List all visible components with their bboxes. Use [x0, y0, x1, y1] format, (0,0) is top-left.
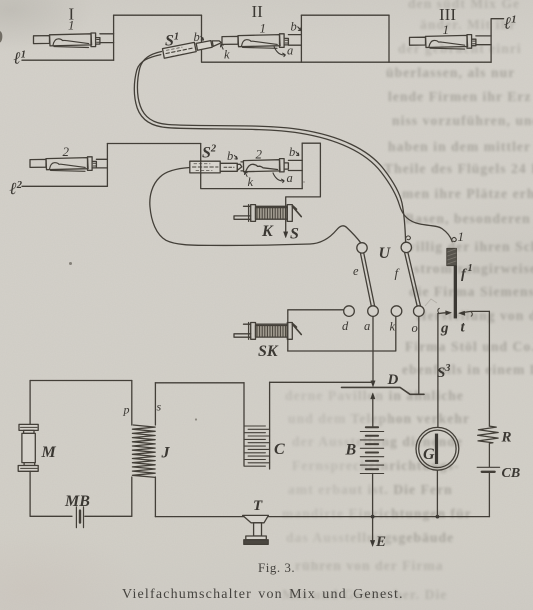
node: rectangle from jack b contact to relay K: [286, 143, 321, 197]
battery B cells: [360, 427, 383, 473]
contact circle d: [344, 306, 355, 317]
switch U arm e: [360, 252, 374, 306]
contact circle f upper: [401, 242, 411, 252]
svg-text:d: d: [342, 319, 349, 333]
wire: middle loop top edge: [155, 382, 244, 384]
svg-text:C: C: [274, 441, 285, 458]
svg-text:MB: MB: [64, 493, 90, 510]
wire: capacitor C top to contact-a wire: [270, 381, 373, 383]
jack 2 row2-left frame springs: [96, 159, 107, 168]
contact 1 hatched block (f1): [447, 248, 457, 265]
svg-text:b: b: [291, 20, 297, 34]
induction coil J (zigzag winding): [132, 425, 155, 477]
svg-text:D: D: [387, 372, 399, 388]
wire: capacitor C left bus: [243, 383, 245, 466]
winding hatch of relay K: [257, 208, 286, 220]
svg-text:b: b: [289, 145, 295, 159]
svg-text:a: a: [364, 319, 370, 333]
wire: top wire between jack II and jack III: [301, 14, 389, 16]
wire: long bottom wire of lower circuit: [155, 516, 489, 518]
svg-text:p: p: [123, 403, 130, 417]
wire: jack 2 riser: [106, 144, 108, 187]
svg-text:R: R: [501, 430, 512, 446]
contact circle a: [368, 306, 379, 317]
paper speck dot: [69, 262, 72, 265]
svg-text:M: M: [41, 444, 57, 461]
node: row2 enclosure drop through plug and bottom edge: [201, 144, 303, 189]
battery MB cells: [76, 507, 83, 528]
jack 2 row2 left (spring jack 2, section I): [30, 157, 96, 172]
svg-text:e: e: [353, 264, 359, 278]
svg-text:s: s: [157, 400, 162, 414]
wire: CB down to bottom wire corner: [488, 472, 490, 517]
junction dot at B: [371, 515, 375, 519]
jack III frame springs: [476, 36, 491, 45]
wire: contact a down to bar D with arrowhead: [372, 316, 374, 383]
wire: left loop left side to microphone M: [29, 381, 31, 425]
arrow t (pointing left at lever): [462, 311, 490, 313]
svg-text:k: k: [248, 175, 254, 189]
jack III (spring jack 1, section III): [410, 35, 476, 50]
svg-text:B: B: [345, 442, 357, 459]
svg-text:1: 1: [260, 21, 267, 36]
wire: capacitor C right bus: [269, 382, 271, 469]
bar D (listening key bar): [342, 387, 425, 394]
wire: primary p riser: [131, 381, 133, 426]
jack 2 row2 middle (spring jack 2, section II): [241, 159, 288, 172]
winding hatch of relay SK: [257, 326, 286, 338]
cord of plug S1 (double flexible cord): [137, 52, 405, 243]
relay K (coil with armature): [234, 205, 301, 222]
wire: line l1 from label to jack I: [22, 59, 114, 61]
wire: row2 top wire from jack 2: [107, 143, 200, 145]
wire: contact o down to bar D: [418, 316, 420, 394]
svg-text:G: G: [423, 446, 435, 463]
wire: relay K to S arrow: [285, 198, 287, 234]
paper scratch: [425, 299, 437, 306]
svg-text:2: 2: [63, 144, 70, 159]
wire: left loop top edge: [30, 380, 132, 382]
contact circle k: [391, 306, 402, 317]
bleed-through text column: [408, 0, 520, 12]
wire: secondary bottom down: [154, 477, 156, 517]
caption title: [122, 587, 404, 603]
tick for b: [201, 36, 204, 40]
svg-text:CB: CB: [502, 466, 521, 481]
plug S1 (answering plug, tilted): [163, 41, 222, 59]
resistor R zigzag: [478, 426, 499, 467]
caption Fig. 3.: [258, 560, 295, 576]
wire: row2 enclosure drop visible over plug S2: [200, 161, 202, 174]
svg-text:1: 1: [458, 229, 465, 244]
svg-text:1: 1: [68, 18, 75, 33]
paper speck left edge: [0, 31, 2, 43]
svg-text:a: a: [287, 44, 293, 58]
wire: microphone M down to bottom: [29, 471, 31, 516]
svg-text:2: 2: [256, 147, 263, 162]
jack II frame springs: [288, 35, 301, 46]
svg-text:K: K: [261, 223, 274, 240]
svg-text:k: k: [390, 320, 396, 334]
contact circle e upper: [357, 243, 367, 253]
svg-text:U: U: [379, 245, 392, 262]
capacitor C plates: [244, 426, 270, 466]
galvanometer G outer ring: [416, 427, 459, 470]
wire: battery B down to bottom wire: [372, 474, 374, 517]
wire: line l2 to jack 2: [22, 185, 107, 187]
contact circle o: [414, 306, 425, 317]
wire: left loop bottom with gap for battery MB: [30, 515, 132, 517]
jack II (spring jack 1, section II): [222, 34, 288, 49]
svg-text:S: S: [290, 226, 299, 243]
microphone M: [18, 424, 38, 471]
svg-text:a: a: [287, 171, 293, 185]
wire: earth lead E with arrowhead: [372, 517, 374, 543]
wire: riser at left of jack III: [388, 15, 390, 62]
svg-text:T: T: [253, 498, 263, 514]
svg-text:E: E: [375, 534, 386, 550]
lever bar t (f1 lever): [454, 266, 457, 319]
svg-text:g: g: [440, 321, 449, 337]
arrow up from battery B to bar D: [372, 397, 374, 427]
arrow g (pointing right at lever): [438, 312, 448, 315]
paper speck dot: [195, 418, 197, 420]
wire: primary bottom to left-loop bottom: [131, 477, 133, 516]
paper speck dot: [303, 181, 305, 183]
galvanometer G inner ring: [419, 430, 456, 467]
svg-text:b: b: [227, 149, 233, 163]
switch U arm f: [405, 252, 421, 306]
battery CB cell: [477, 466, 499, 468]
curl at top of arm f: [406, 236, 411, 242]
node: section II enclosure left and bottom: [202, 15, 492, 62]
svg-text:1: 1: [443, 22, 450, 37]
junction dot at G: [436, 515, 440, 519]
jack I (spring jack, line 1 section I): [34, 33, 100, 48]
jack I frame springs: [100, 34, 114, 43]
cord of plug S2 (flexible cord to arm e): [150, 168, 361, 246]
wire: G bottom to bottom wire: [436, 470, 438, 516]
galvanometer G needle: [435, 434, 438, 464]
wire: SK lower wire to contact k: [288, 316, 396, 351]
svg-text:k: k: [224, 48, 230, 62]
svg-text:II: II: [252, 2, 264, 21]
wire: g side down to galvanometer G: [437, 314, 439, 428]
wire: jack II right riser: [300, 15, 302, 62]
curl at contact 1: [452, 238, 456, 242]
svg-text:o: o: [412, 321, 418, 335]
wire: t side down to resistor R: [488, 311, 490, 426]
svg-text:SK: SK: [258, 343, 279, 360]
key T (pedestal key): [243, 515, 269, 544]
wire: jack III right riser to line l1: [491, 19, 504, 63]
relay SK (coil with armature): [234, 323, 301, 340]
wire: jack I riser: [113, 15, 115, 60]
jack 2 row2-middle frame springs: [288, 160, 302, 170]
svg-text:b: b: [194, 30, 200, 44]
wire: top wire between jack I and jack II: [114, 14, 202, 16]
wire: secondary s riser: [154, 383, 156, 425]
svg-text:J: J: [161, 445, 171, 462]
plug S2 (calling plug, horizontal): [190, 161, 242, 173]
wire: row2 right riser: [301, 143, 303, 188]
wire: SK to contact d: [288, 310, 344, 351]
arrow head to S: [284, 232, 288, 238]
